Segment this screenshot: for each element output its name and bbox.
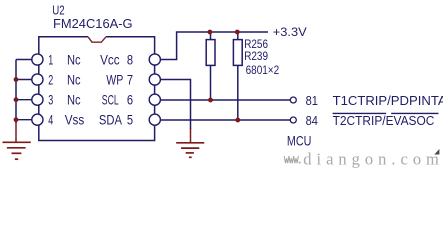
svg-text:2: 2: [48, 72, 53, 87]
svg-text:Vss: Vss: [65, 113, 85, 128]
svg-text:4: 4: [48, 113, 53, 128]
svg-text:U2: U2: [52, 4, 64, 18]
svg-text:1: 1: [48, 52, 53, 67]
svg-text:SDA: SDA: [99, 113, 123, 128]
svg-text:FM24C16A-G: FM24C16A-G: [53, 17, 133, 31]
svg-text:+3.3V: +3.3V: [273, 25, 307, 39]
svg-text:5: 5: [127, 113, 133, 128]
svg-text:6801×2: 6801×2: [246, 65, 280, 77]
svg-text:8: 8: [127, 52, 133, 67]
svg-text:Nc: Nc: [67, 52, 81, 67]
svg-text:SCL: SCL: [102, 93, 119, 108]
svg-text:R239: R239: [244, 51, 268, 63]
svg-text:Nc: Nc: [67, 93, 81, 108]
svg-text:WP: WP: [106, 72, 123, 87]
svg-text:MCU: MCU: [287, 133, 312, 149]
svg-text:T1CTRIP/PDPINTA: T1CTRIP/PDPINTA: [333, 93, 443, 108]
svg-text:R256: R256: [244, 39, 268, 51]
svg-text:T2CTRIP/EVASOC: T2CTRIP/EVASOC: [333, 113, 435, 128]
svg-text:Nc: Nc: [67, 72, 81, 87]
svg-text:84: 84: [306, 114, 318, 128]
svg-text:3: 3: [48, 93, 53, 108]
svg-text:81: 81: [306, 94, 318, 108]
svg-text:7: 7: [127, 72, 133, 87]
svg-text:diangon.com: diangon.com: [303, 149, 439, 168]
svg-text:6: 6: [127, 93, 133, 108]
svg-text:Vcc: Vcc: [100, 52, 120, 67]
